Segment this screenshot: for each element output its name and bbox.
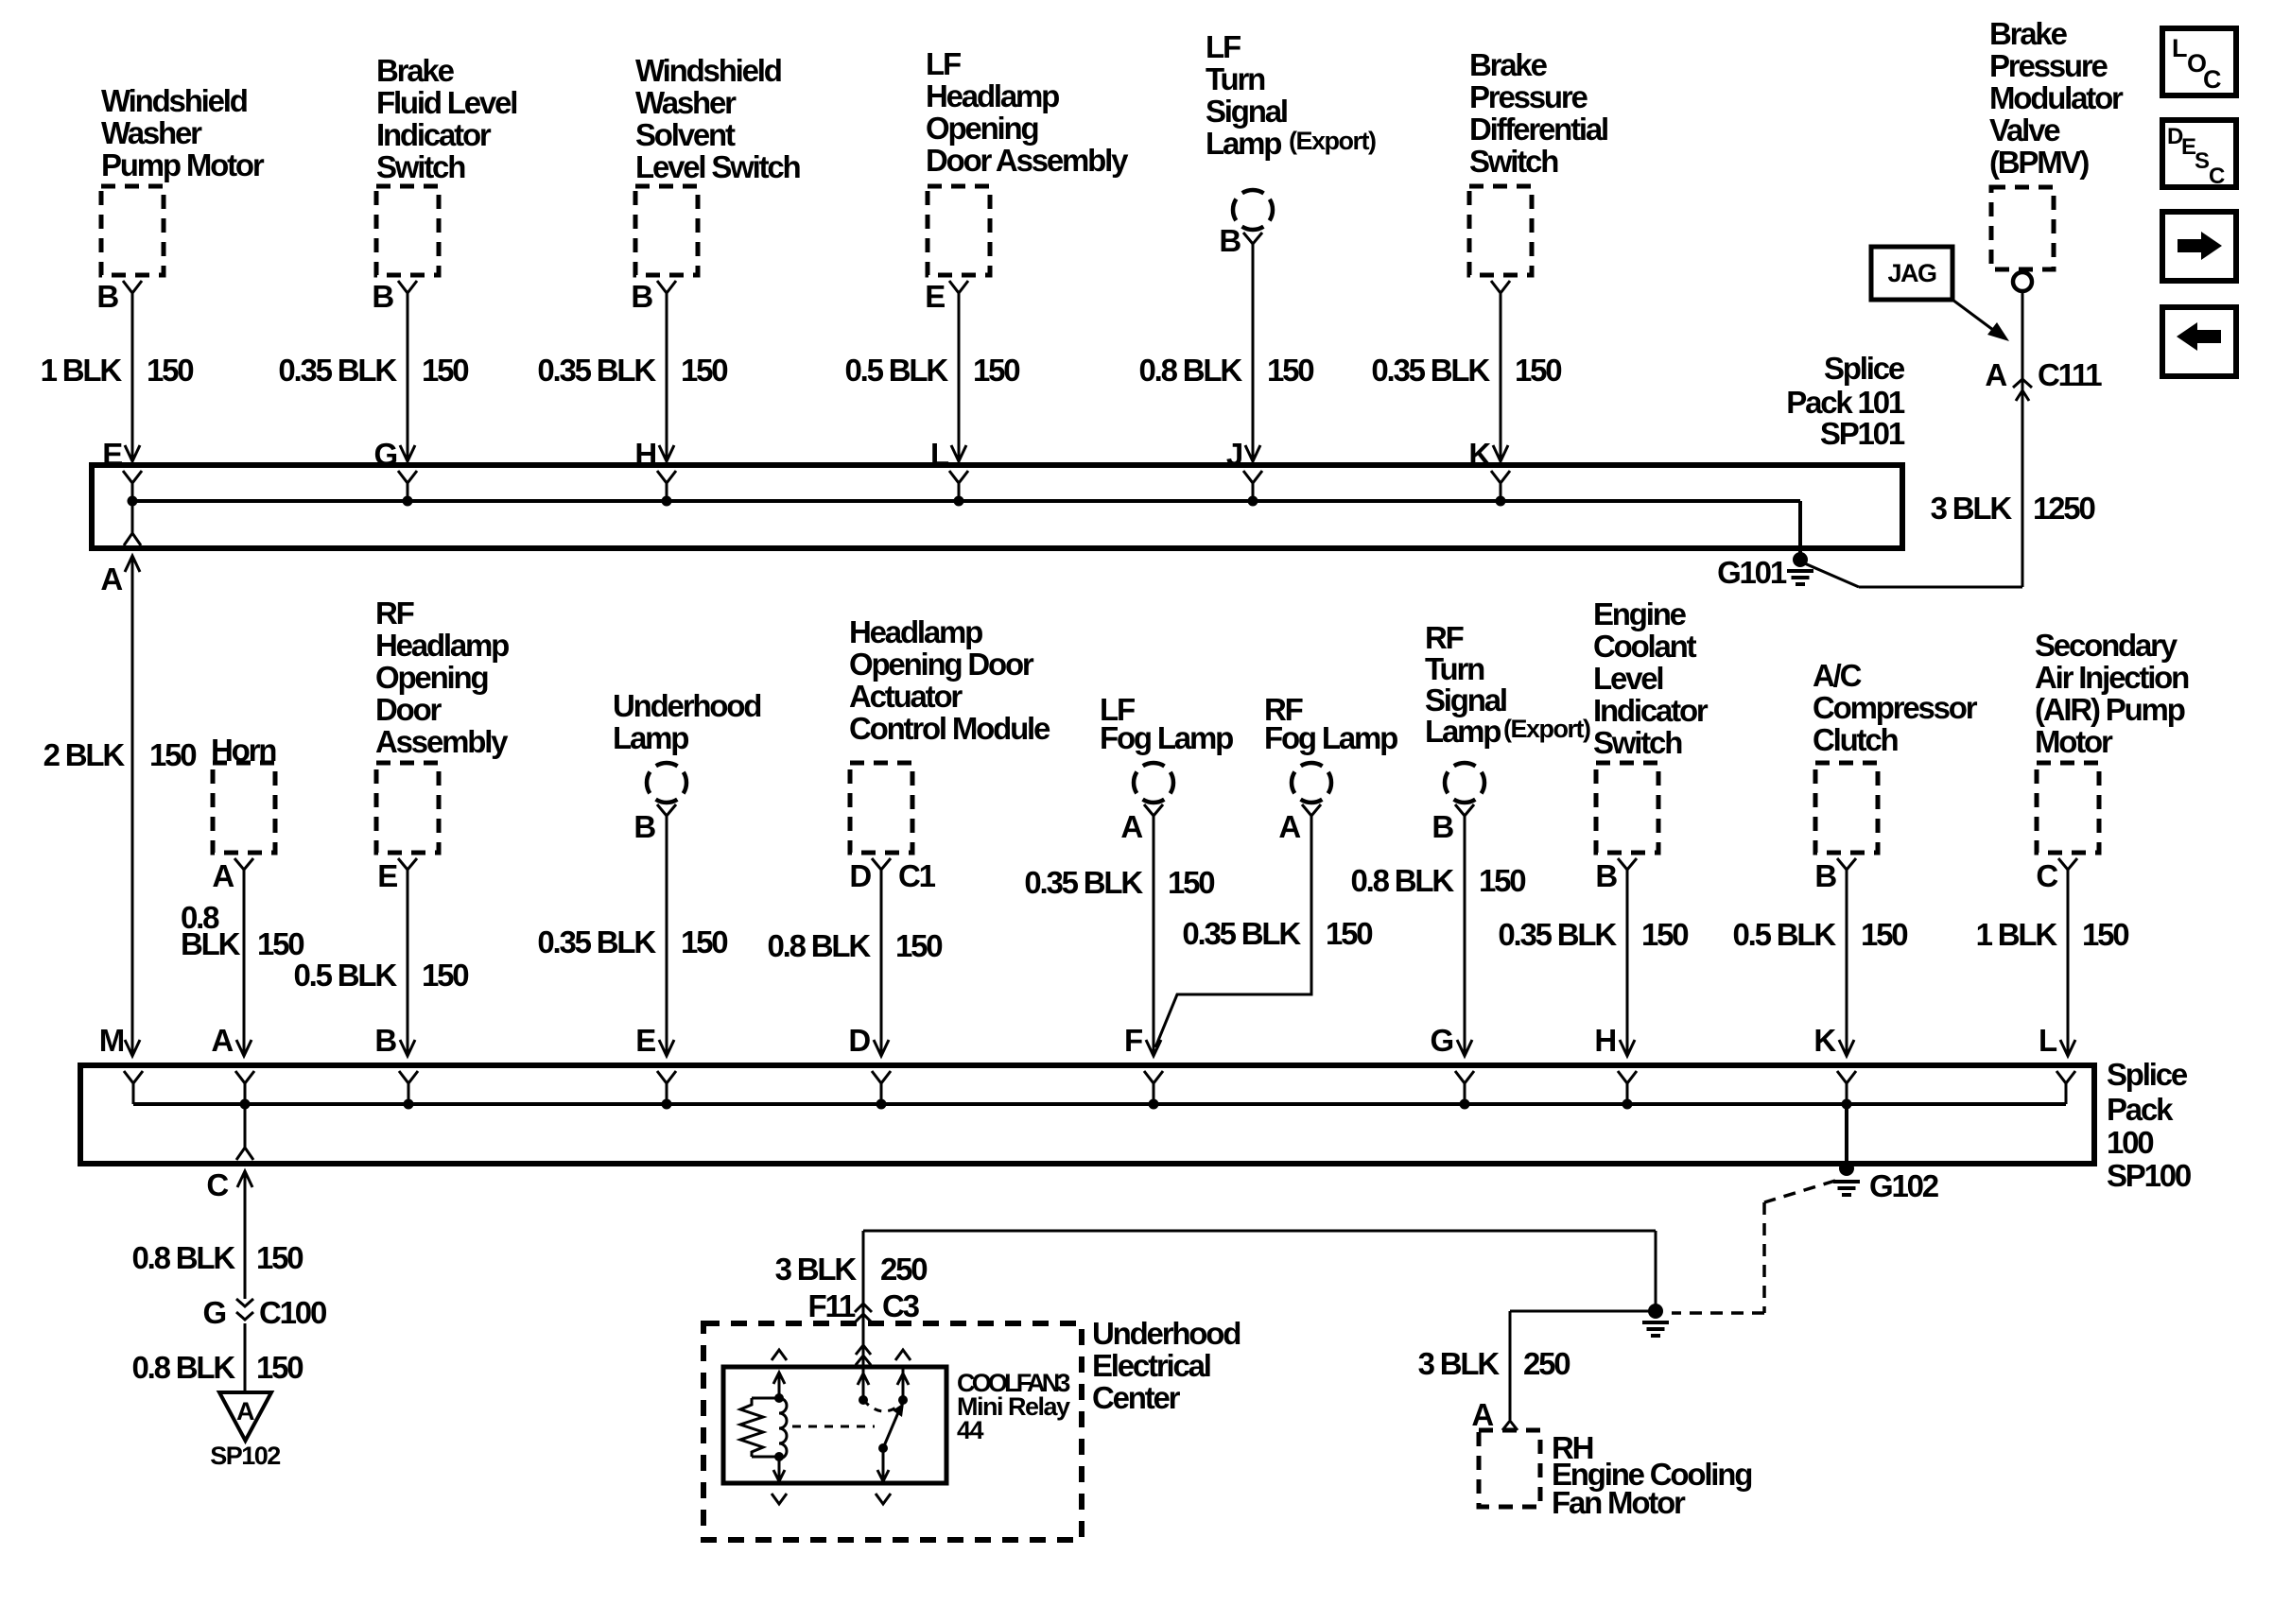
svg-text:1250: 1250: [2033, 491, 2094, 526]
svg-text:1 BLK: 1 BLK: [1976, 917, 2058, 952]
SP100 Y-connector at x=259: [235, 1071, 254, 1110]
svg-text:Fog Lamp: Fog Lamp: [1264, 720, 1397, 755]
SP100 internal bus wire: [133, 1102, 2066, 1106]
wire 3 BLK 1250 from BPMV pin A through C111 to G101: [1800, 291, 2022, 587]
svg-text:Assembly: Assembly: [375, 724, 509, 759]
svg-text:150: 150: [681, 353, 727, 388]
SP101 Y-connector at x=140: [123, 471, 142, 507]
wire 3 BLK 250 from UEC relay to ground junction: [775, 1231, 1656, 1367]
svg-text:L: L: [2039, 1023, 2057, 1058]
svg-text:G102: G102: [1869, 1168, 1939, 1203]
relay resistor: [740, 1398, 779, 1457]
svg-text:A: A: [212, 858, 234, 893]
svg-text:150: 150: [257, 926, 304, 961]
svg-text:150: 150: [973, 353, 1019, 388]
svg-text:M: M: [99, 1023, 124, 1058]
svg-text:Underhood: Underhood: [1092, 1316, 1240, 1351]
svg-text:150: 150: [1479, 863, 1525, 898]
svg-text:SP102: SP102: [210, 1442, 280, 1470]
label JAG with arrow: [1871, 247, 2009, 341]
svg-text:B: B: [631, 279, 652, 314]
svg-text:0.35 BLK: 0.35 BLK: [1498, 917, 1617, 952]
svg-text:150: 150: [1641, 917, 1688, 952]
svg-text:150: 150: [256, 1350, 303, 1385]
svg-text:LF: LF: [1206, 29, 1241, 64]
ground junction near RH fan: [1510, 1304, 1669, 1336]
svg-text:E: E: [925, 279, 945, 314]
underhood electrical center dashed box: [703, 1323, 1082, 1540]
svg-text:0.8 BLK: 0.8 BLK: [132, 1350, 236, 1385]
relay mechanical dashed link: [792, 1425, 875, 1428]
component: LF Fog Lamp: [1100, 692, 1233, 844]
svg-text:0.8 BLK: 0.8 BLK: [768, 928, 872, 963]
svg-text:G: G: [203, 1295, 226, 1330]
svg-text:3 BLK: 3 BLK: [775, 1252, 858, 1287]
svg-text:Underhood: Underhood: [613, 688, 760, 723]
svg-text:(Export): (Export): [1503, 715, 1590, 743]
svg-text:Center: Center: [1092, 1380, 1181, 1415]
svg-text:Level: Level: [1593, 661, 1662, 696]
svg-text:C: C: [2209, 164, 2225, 189]
svg-text:Indicator: Indicator: [1593, 693, 1709, 728]
svg-text:Signal: Signal: [1206, 94, 1287, 129]
svg-text:B: B: [1219, 223, 1241, 258]
wire 0.35 BLK 150 from Brake Switch to SP101 pin G: [278, 293, 468, 472]
svg-text:0.35 BLK: 0.35 BLK: [1371, 353, 1490, 388]
component: RF Turn Signal: [1425, 620, 1590, 844]
icon box right arrow: [2162, 212, 2236, 281]
svg-text:150: 150: [422, 958, 468, 993]
svg-text:Electrical: Electrical: [1092, 1348, 1210, 1383]
svg-text:0.8 BLK: 0.8 BLK: [132, 1240, 236, 1275]
svg-text:3 BLK: 3 BLK: [1418, 1346, 1501, 1381]
SP100 Y-connector at x=932: [872, 1071, 891, 1110]
splice pack SP100 bar: [80, 1065, 2094, 1164]
svg-text:C3: C3: [882, 1288, 920, 1323]
svg-text:44: 44: [957, 1416, 984, 1444]
svg-text:0.5 BLK: 0.5 BLK: [845, 353, 949, 388]
svg-text:Pump Motor: Pump Motor: [101, 147, 265, 182]
svg-text:Pack 101: Pack 101: [1786, 385, 1905, 420]
connector C111 pin A: [1985, 357, 2102, 401]
wire 0.35 BLK 150 from Brake Switch to SP101 pin K: [1371, 293, 1561, 472]
SP101 Y-connector at x=705: [657, 471, 676, 507]
svg-text:0.35 BLK: 0.35 BLK: [1182, 916, 1301, 951]
svg-text:Coolant: Coolant: [1593, 629, 1697, 664]
svg-text:Door: Door: [375, 692, 442, 727]
svg-text:Signal: Signal: [1425, 682, 1506, 717]
svg-text:Differential: Differential: [1469, 112, 1607, 147]
svg-text:SP101: SP101: [1820, 416, 1905, 451]
svg-text:F11: F11: [808, 1288, 856, 1323]
dashed ground link G102 to RH fan ground: [1672, 1181, 1835, 1313]
SP101 Y-connector at x=1325: [1243, 471, 1262, 507]
SP100 Y-connector at x=1721: [1618, 1071, 1637, 1110]
relay switch blade: [878, 1403, 904, 1453]
relay switch common pin: [858, 1367, 869, 1405]
svg-text:Washer: Washer: [635, 85, 737, 120]
svg-text:150: 150: [1326, 916, 1372, 951]
SP100 Y-connector at x=2185: [2056, 1071, 2075, 1104]
component: Windshield Washer Solvent Level Switch: [631, 53, 800, 314]
connector C3 fuse F11: [808, 1288, 920, 1323]
svg-text:0.8 BLK: 0.8 BLK: [1351, 863, 1455, 898]
relay coil pin arrow: [773, 1373, 785, 1403]
svg-text:150: 150: [1515, 353, 1561, 388]
svg-text:Pressure: Pressure: [1469, 79, 1588, 114]
svg-text:Switch: Switch: [1593, 725, 1682, 760]
wire 0.8 BLK 150 from Headlamp to SP100: [768, 870, 943, 1058]
svg-text:Switch: Switch: [376, 149, 465, 184]
svg-text:B: B: [96, 279, 118, 314]
svg-text:Secondary: Secondary: [2035, 628, 2178, 663]
svg-text:Motor: Motor: [2035, 724, 2113, 759]
wire 0.35 BLK 150 from Underhood to SP100: [537, 816, 727, 1058]
svg-text:C111: C111: [2038, 357, 2102, 392]
component: LF Turn Signal Lamp ​: [1206, 29, 1376, 258]
svg-text:Air Injection: Air Injection: [2035, 660, 2189, 695]
icon box LOC: [2162, 28, 2236, 95]
svg-text:Solvent: Solvent: [635, 117, 736, 152]
SP100 Y-connector at x=432: [399, 1071, 418, 1110]
wire 0.5 BLK 150 from A/C to SP100: [1733, 870, 1908, 1058]
svg-text:Brake: Brake: [376, 53, 455, 88]
component: Windshield Washer Pump Motor: [96, 83, 264, 314]
svg-text:150: 150: [2082, 917, 2128, 952]
wire 0.5 BLK 150 from LF Door Assembly to SP101 pin L: [845, 293, 1020, 472]
svg-text:Lamp: Lamp: [1206, 126, 1281, 161]
label Underhood Electrical Center: [1092, 1316, 1240, 1415]
svg-text:L: L: [2172, 34, 2187, 62]
svg-text:Indicator: Indicator: [376, 117, 492, 152]
wire 0.8|BLK 150 from Horn to SP100: [181, 870, 304, 1058]
svg-text:E: E: [635, 1023, 655, 1058]
splice pack SP101 bar: [92, 465, 1902, 548]
svg-text:3 BLK: 3 BLK: [1931, 491, 2013, 526]
svg-text:B: B: [1431, 809, 1453, 844]
svg-text:D: D: [849, 858, 871, 893]
svg-text:K: K: [1813, 1023, 1836, 1058]
svg-text:G: G: [1431, 1023, 1453, 1058]
wire 1 BLK 150 from Secondary to SP100: [1976, 870, 2129, 1058]
svg-text:C1: C1: [898, 858, 936, 893]
svg-text:C100: C100: [259, 1295, 326, 1330]
icon box left arrow: [2162, 307, 2236, 376]
svg-text:150: 150: [1168, 865, 1214, 900]
wire 2 BLK 150 from SP101 pin A to SP100 pin M: [43, 556, 197, 1058]
svg-text:B: B: [633, 809, 655, 844]
component: Horn: [211, 733, 276, 893]
relay coil: [774, 1398, 787, 1461]
component: A/C Compressor Clutch: [1813, 658, 1978, 893]
SP100 Y-connector at x=705: [657, 1071, 676, 1110]
svg-text:D: D: [848, 1023, 870, 1058]
svg-text:A: A: [1120, 809, 1142, 844]
svg-text:Headlamp: Headlamp: [375, 628, 509, 663]
svg-text:Turn: Turn: [1206, 61, 1265, 96]
svg-text:150: 150: [1861, 917, 1907, 952]
svg-text:E: E: [377, 858, 397, 893]
component: Headlamp Opening Door Actuator Control Module: [849, 614, 1050, 893]
relay pin chevrons above box: [772, 1345, 911, 1365]
wire 1 BLK 150 from Windshield Pump Motor to SP101 pin E: [41, 293, 194, 472]
svg-text:RF: RF: [1425, 620, 1464, 655]
svg-text:(AIR) Pump: (AIR) Pump: [2035, 692, 2185, 727]
svg-text:LF: LF: [926, 46, 961, 81]
svg-text:Level Switch: Level Switch: [635, 149, 801, 184]
svg-text:0.35 BLK: 0.35 BLK: [278, 353, 397, 388]
label 3 BLK 1250: [1931, 491, 2095, 526]
wire 0.5 BLK 150 from RF to SP100: [294, 870, 469, 1058]
svg-text:Fog Lamp: Fog Lamp: [1100, 720, 1233, 755]
svg-text:150: 150: [1267, 353, 1313, 388]
svg-text:Modulator: Modulator: [1989, 80, 2124, 115]
component: RF Fog Lamp: [1264, 692, 1397, 844]
svg-text:C: C: [206, 1167, 228, 1202]
ground G102: [1833, 1104, 1939, 1203]
svg-text:Washer: Washer: [101, 115, 202, 150]
SP101 exit stem to pin A: [124, 501, 141, 545]
SP100 Y-connector at x=1953: [1837, 1071, 1856, 1110]
svg-text:B: B: [1595, 858, 1617, 893]
wire 0.8 BLK 150 from C100 to SP102: [132, 1323, 304, 1392]
label Splice Pack 100 SP100: [2107, 1057, 2191, 1193]
svg-text:Opening: Opening: [926, 111, 1037, 146]
svg-text:A: A: [100, 561, 122, 596]
svg-text:Valve: Valve: [1989, 112, 2060, 147]
svg-text:0.35 BLK: 0.35 BLK: [1024, 865, 1143, 900]
SP101 Y-connector at x=431: [398, 471, 417, 507]
svg-text:Splice: Splice: [1824, 351, 1905, 386]
SP101 Y-connector at x=1587: [1491, 471, 1510, 507]
splice SP102 triangle symbol: [210, 1392, 280, 1470]
svg-text:A: A: [1278, 809, 1300, 844]
svg-text:Headlamp: Headlamp: [926, 78, 1059, 113]
ground G101: [1717, 501, 1813, 590]
svg-text:B: B: [1814, 858, 1836, 893]
component: Secondary Air Injection (AIR) Pump Motor: [2035, 628, 2189, 893]
icon box DESC: [2162, 120, 2236, 189]
wire 0.8 BLK 150 from RF to SP100: [1351, 816, 1526, 1058]
svg-text:Compressor: Compressor: [1813, 690, 1978, 725]
svg-text:Switch: Switch: [1469, 144, 1558, 179]
svg-text:150: 150: [147, 353, 193, 388]
svg-text:150: 150: [256, 1240, 303, 1275]
component: RH Engine Cooling Fan Motor: [1479, 1430, 1751, 1520]
svg-text:Clutch: Clutch: [1813, 722, 1899, 757]
svg-text:0.8 BLK: 0.8 BLK: [1139, 353, 1243, 388]
svg-text:A/C: A/C: [1813, 658, 1862, 693]
component: Engine Coolant Level Indicator Switch: [1593, 596, 1709, 893]
svg-text:0.35 BLK: 0.35 BLK: [537, 924, 656, 959]
svg-text:C: C: [2203, 65, 2221, 94]
component: Underhood Lamp: [613, 688, 760, 844]
svg-text:S: S: [2195, 148, 2210, 174]
connector C100 pin G: [203, 1295, 326, 1330]
svg-text:H: H: [1594, 1023, 1615, 1058]
SP100 Y-connector at x=1220: [1144, 1071, 1163, 1110]
svg-text:Splice: Splice: [2107, 1057, 2188, 1092]
svg-text:RF: RF: [375, 596, 414, 631]
svg-text:(Export): (Export): [1289, 127, 1376, 155]
svg-text:2 BLK: 2 BLK: [43, 737, 126, 772]
component: Brake Pressure Modulator Valve (BPMV): [1989, 16, 2124, 291]
SP100 Y-connector at x=141: [124, 1071, 143, 1104]
SP100 Y-connector at x=1549: [1455, 1071, 1474, 1110]
relay coil bottom pin arrow: [772, 1457, 787, 1504]
svg-text:A: A: [1985, 357, 2006, 392]
relay switch bottom pin arrow: [876, 1448, 891, 1504]
svg-text:Opening: Opening: [375, 660, 487, 695]
svg-text:250: 250: [880, 1252, 927, 1287]
wire 3 BLK 250 to RH engine cooling fan motor: [1418, 1311, 1570, 1432]
wire 0.8 BLK 150 from SP100 pin C to C100: [132, 1167, 304, 1299]
wire 0.35 BLK 150 from LF to SP100: [1024, 816, 1214, 1058]
svg-text:Fan Motor: Fan Motor: [1552, 1485, 1686, 1520]
svg-text:Pressure: Pressure: [1989, 48, 2108, 83]
relay switch NO pin: [897, 1367, 909, 1405]
svg-text:Brake: Brake: [1469, 47, 1548, 82]
svg-text:Control Module: Control Module: [849, 711, 1050, 746]
svg-text:B: B: [374, 1023, 396, 1058]
relay dashed contact arc: [863, 1400, 903, 1411]
svg-text:Lamp: Lamp: [1425, 714, 1501, 749]
svg-text:150: 150: [681, 924, 727, 959]
svg-text:BLK: BLK: [181, 926, 241, 961]
wire 0.35 BLK 150 from Engine to SP100: [1498, 870, 1688, 1058]
relay COOLFAN3 Mini Relay 44 box: [723, 1367, 1070, 1483]
svg-text:Windshield: Windshield: [101, 83, 247, 118]
svg-text:Lamp: Lamp: [613, 720, 688, 755]
svg-text:1 BLK: 1 BLK: [41, 353, 123, 388]
svg-text:Headlamp: Headlamp: [849, 614, 982, 649]
svg-text:F: F: [1124, 1023, 1142, 1058]
svg-text:JAG: JAG: [1887, 259, 1936, 287]
svg-text:Turn: Turn: [1425, 651, 1484, 686]
component: RF Headlamp Opening Door Assembly: [375, 596, 509, 893]
svg-text:Door Assembly: Door Assembly: [926, 143, 1129, 178]
SP101 internal bus wire: [132, 499, 1800, 503]
svg-text:100: 100: [2107, 1125, 2153, 1160]
svg-text:A: A: [236, 1397, 254, 1425]
wire 0.35 BLK 150 from Windshield Level Switch to SP101 pin H: [537, 293, 727, 472]
component: Brake Fluid Level Indicator Switch: [372, 53, 516, 314]
svg-text:Engine: Engine: [1593, 596, 1687, 631]
svg-text:150: 150: [895, 928, 942, 963]
svg-text:0.35 BLK: 0.35 BLK: [537, 353, 656, 388]
SP101 Y-connector at x=1014: [949, 471, 968, 507]
svg-text:150: 150: [149, 737, 196, 772]
wire 0.35 BLK 150 from RF to SP100: [1155, 816, 1372, 1047]
component: Brake Pressure Differential Switch: [1469, 47, 1607, 293]
svg-text:Opening Door: Opening Door: [849, 647, 1034, 682]
svg-text:0.5 BLK: 0.5 BLK: [294, 958, 398, 993]
svg-text:Brake: Brake: [1989, 16, 2068, 51]
SP100 exit stem to pin C: [236, 1104, 253, 1160]
svg-text:A: A: [1471, 1397, 1493, 1432]
svg-text:G101: G101: [1717, 555, 1787, 590]
svg-text:Windshield: Windshield: [635, 53, 781, 88]
svg-text:Actuator: Actuator: [849, 679, 963, 714]
svg-text:250: 250: [1523, 1346, 1570, 1381]
wire 0.8 BLK 150 from LF Lamp ​ to SP101 pin J: [1139, 244, 1314, 472]
svg-text:Fluid Level: Fluid Level: [376, 85, 516, 120]
svg-text:SP100: SP100: [2107, 1158, 2191, 1193]
svg-text:Pack: Pack: [2107, 1092, 2174, 1127]
svg-text:(BPMV): (BPMV): [1989, 145, 2089, 180]
svg-text:150: 150: [422, 353, 468, 388]
component: LF Headlamp Opening Door Assembly: [925, 46, 1129, 314]
svg-text:B: B: [372, 279, 393, 314]
svg-text:A: A: [211, 1023, 233, 1058]
label Splice Pack 101 SP101: [1786, 351, 1905, 451]
svg-text:0.5 BLK: 0.5 BLK: [1733, 917, 1837, 952]
svg-text:C: C: [2036, 858, 2057, 893]
